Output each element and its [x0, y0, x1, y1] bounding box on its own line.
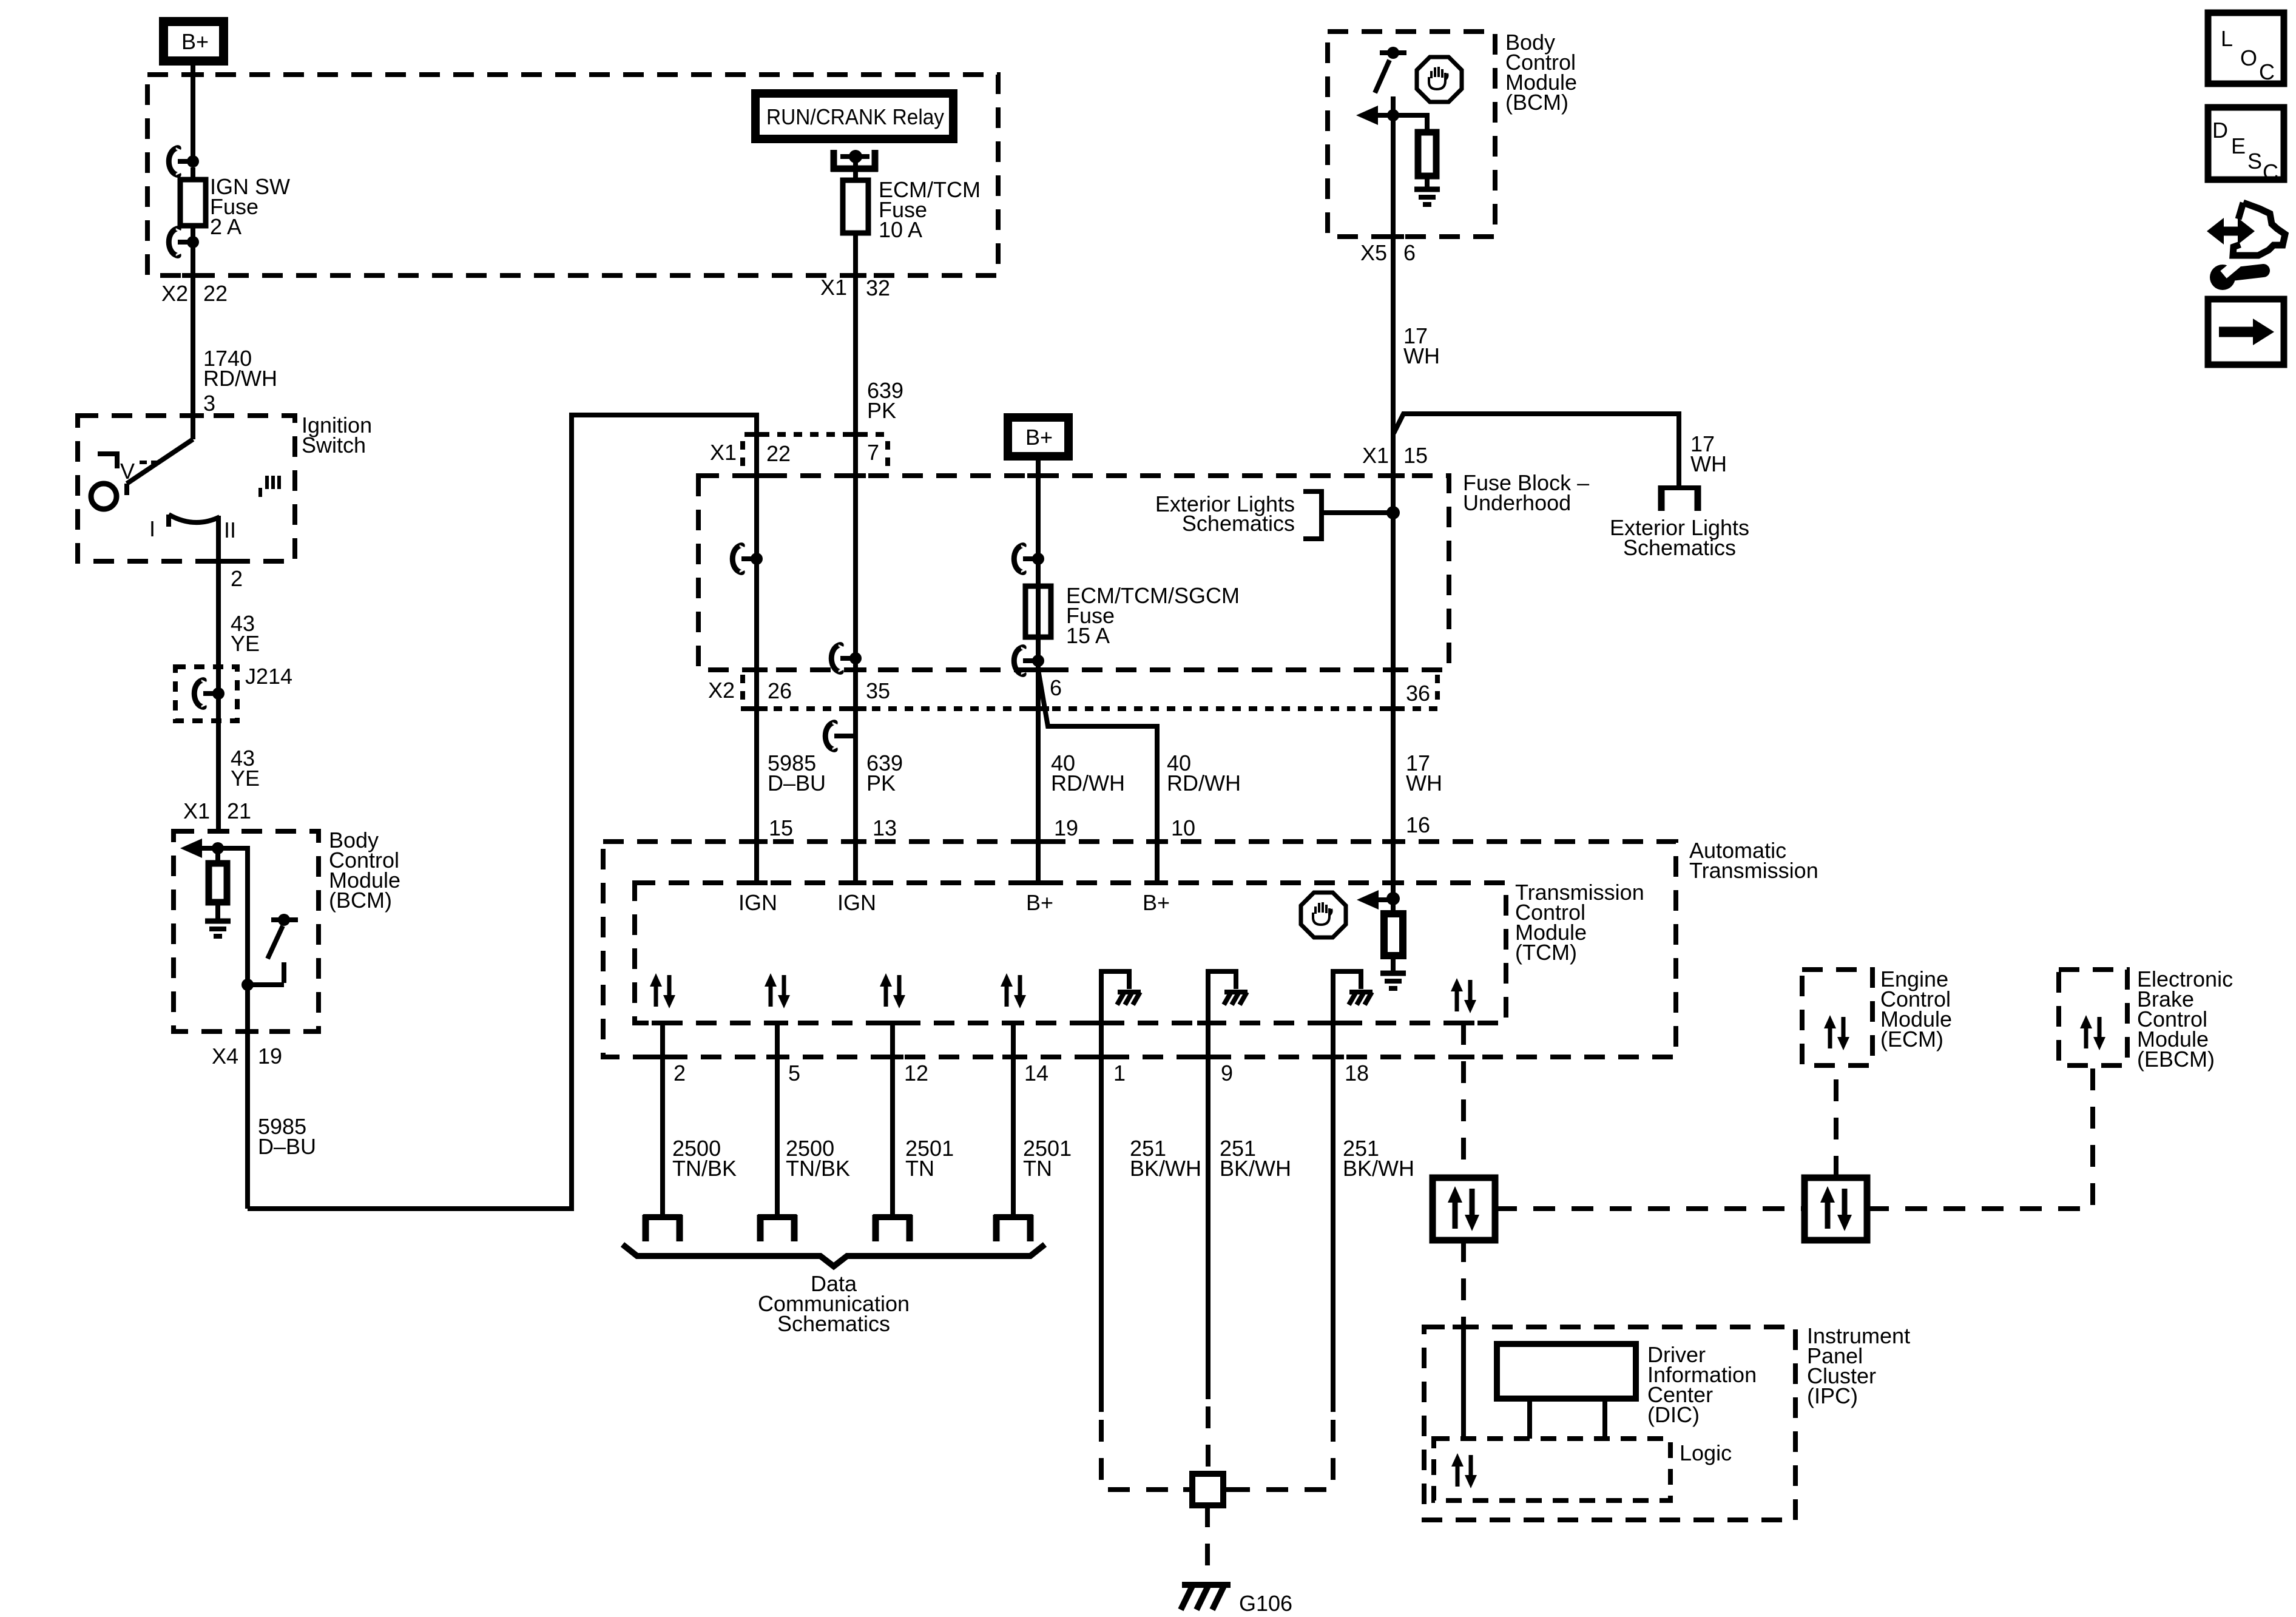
ticks at underhood box bottom and X2 row [746, 667, 768, 672]
next page arrow icon box [2208, 299, 2284, 365]
resistor inside TCM [1391, 899, 1396, 914]
fuse IGN SW 2A [180, 180, 206, 226]
wire inside IPC [1461, 1327, 1466, 1439]
connector hook below IGN SW fuse [169, 229, 178, 256]
serial data arrows inside logic box [1451, 1453, 1477, 1488]
RUN/CRANK Relay box [751, 89, 957, 143]
junction dot [187, 155, 199, 167]
branch wire pin 6 to pin 10 [1038, 670, 1157, 883]
ticks at transmission box top [746, 839, 768, 844]
svg-text:D: D [2212, 118, 2228, 143]
svg-text:G106: G106 [1239, 1591, 1292, 1616]
connector hook above IGN SW fuse [169, 148, 178, 175]
terminal pin 14 [994, 1215, 1033, 1241]
junction dot [1387, 109, 1399, 121]
ground G106 symbol [1181, 1585, 1231, 1610]
tick at B+ wire crossing fuse block top [182, 72, 204, 77]
serial data splice box (left) [1433, 1178, 1495, 1240]
svg-text:RD/WH: RD/WH [1167, 771, 1241, 795]
hook on wire 35 below X2 [825, 723, 835, 750]
svg-text:V: V [120, 459, 135, 484]
stop hand icon [1417, 57, 1462, 102]
svg-text:10 A: 10 A [879, 217, 922, 242]
hook below ECM/TCM/SGCM fuse [1014, 647, 1024, 675]
junction dot [751, 553, 763, 565]
svg-text:RD/WH: RD/WH [203, 366, 277, 391]
svg-text:X1: X1 [710, 440, 737, 465]
svg-text:C: C [2259, 59, 2275, 84]
junction dot [1386, 892, 1400, 905]
svg-text:X2: X2 [161, 281, 188, 306]
svg-text:(BCM): (BCM) [329, 888, 392, 913]
svg-text:O: O [2240, 46, 2257, 70]
dashed ground wire pin 1 [1101, 1420, 1189, 1490]
dashed ground wire pin 9 [1206, 1406, 1210, 1474]
junction dot [849, 150, 862, 163]
B+ power node (middle) [1004, 413, 1073, 461]
svg-text:16: 16 [1406, 812, 1430, 837]
svg-text:WH: WH [1403, 343, 1440, 368]
svg-text:PK: PK [867, 398, 896, 423]
svg-text:(BCM): (BCM) [1505, 90, 1568, 115]
Ignition Switch dashed box [78, 416, 295, 561]
hook above ECM/TCM/SGCM fuse [1014, 545, 1024, 573]
branch to exterior lights [1394, 414, 1679, 488]
fuse ECM/TCM 10A [843, 180, 868, 233]
svg-text:B+: B+ [1025, 425, 1053, 450]
ticks at transmission box bottom [652, 1055, 674, 1059]
svg-text:D–BU: D–BU [768, 771, 826, 795]
CAN wire pin 2 [660, 1021, 665, 1218]
svg-text:(IPC): (IPC) [1807, 1383, 1858, 1408]
dashed wire splice to IPC [1461, 1240, 1466, 1327]
svg-text:L: L [2221, 26, 2233, 51]
internal switch inside BCM [1387, 47, 1399, 59]
serial data arrows inside TCM [650, 973, 675, 1008]
svg-text:Transmission: Transmission [1689, 858, 1818, 883]
svg-text:Underhood: Underhood [1463, 490, 1571, 515]
svg-text:J214: J214 [245, 664, 292, 689]
position III mark [258, 488, 262, 497]
svg-text:10: 10 [1171, 815, 1195, 840]
wire 17 WH main run [1391, 237, 1396, 899]
junction dot [1032, 655, 1044, 667]
ticks at X1 connector row [746, 432, 768, 437]
junction dot J214 [212, 687, 225, 700]
svg-text:36: 36 [1406, 681, 1430, 706]
svg-text:35: 35 [866, 678, 890, 703]
ground wire pin 1 [1099, 1009, 1104, 1412]
Automatic Transmission dashed box [603, 842, 1676, 1057]
B+ power node (top left) [159, 17, 228, 66]
svg-text:B+: B+ [1026, 890, 1053, 915]
svg-text:19: 19 [258, 1044, 282, 1068]
svg-text:X1: X1 [820, 275, 847, 300]
svg-text:TN/BK: TN/BK [672, 1156, 737, 1181]
Body Control Module (BCM) dashed box bottom-left [174, 831, 319, 1031]
wire BCM output [245, 985, 250, 1209]
svg-text:II: II [224, 518, 236, 542]
Fuse Block - Underhood dashed box [698, 476, 1449, 670]
svg-text:IGN: IGN [837, 890, 876, 915]
Transmission Control Module (TCM) dashed box [635, 883, 1506, 1023]
svg-text:TN/BK: TN/BK [786, 1156, 850, 1181]
terminal pin 5 [758, 1215, 797, 1241]
ignition switch wiper arc [169, 515, 220, 522]
ground hook pin 18 [1333, 971, 1361, 1009]
svg-text:(TCM): (TCM) [1515, 940, 1577, 965]
ground inside BCM [205, 921, 231, 936]
dashed wire to ground [1205, 1505, 1210, 1578]
ground hook pin 1 [1101, 971, 1129, 1009]
svg-text:2 A: 2 A [210, 214, 241, 239]
Engine Control Module (ECM) dashed box [1802, 970, 1872, 1065]
svg-text:18: 18 [1345, 1061, 1369, 1085]
svg-text:32: 32 [866, 275, 890, 300]
svg-text:2: 2 [231, 566, 243, 591]
wire B+ to IGN SW fuse [191, 66, 195, 161]
svg-text:E: E [2231, 133, 2246, 158]
fuse ECM/TCM/SGCM 15A [1025, 586, 1051, 637]
Driver Information Center (DIC) display [1497, 1344, 1636, 1399]
hook on wire 7 above X2 [831, 645, 841, 672]
ground wire pin 18 [1331, 1009, 1335, 1412]
resistor branch inside BCM [1393, 115, 1427, 132]
svg-text:15 A: 15 A [1066, 623, 1110, 648]
svg-text:YE: YE [231, 631, 260, 656]
position O circle [91, 484, 116, 509]
dashed wire splice to ECM [1834, 1065, 1838, 1178]
svg-text:S: S [2247, 149, 2262, 174]
svg-text:IGN: IGN [738, 890, 777, 915]
ground hook pin 9 [1208, 971, 1236, 1009]
junction dot on 17 WH [1386, 506, 1400, 519]
svg-text:21: 21 [227, 798, 251, 823]
ground wire pin 9 [1206, 1009, 1210, 1399]
input arrow inside TCM [1357, 890, 1379, 910]
svg-text:C: C [2263, 160, 2278, 184]
svg-text:BK/WH: BK/WH [1130, 1156, 1201, 1181]
Instrument Panel Cluster (IPC) dashed box [1424, 1327, 1795, 1520]
stop hand icon TCM [1301, 893, 1346, 937]
svg-text:2: 2 [674, 1061, 686, 1085]
ticks at TCM top [746, 880, 768, 885]
svg-text:22: 22 [766, 441, 791, 466]
ground splice box G106 [1192, 1474, 1223, 1505]
svg-text:BK/WH: BK/WH [1343, 1156, 1414, 1181]
dashed wire to EBCM [1867, 1065, 2093, 1209]
svg-text:15: 15 [769, 815, 793, 840]
svg-text:1: 1 [1113, 1061, 1126, 1085]
svg-text:TN: TN [905, 1156, 934, 1181]
svg-text:BK/WH: BK/WH [1220, 1156, 1291, 1181]
connector X2 dotted row (fuse block underhood bottom) [741, 706, 1437, 711]
svg-text:TN: TN [1023, 1156, 1052, 1181]
svg-text:(DIC): (DIC) [1647, 1402, 1700, 1427]
svg-text:22: 22 [203, 281, 228, 306]
svg-text:B+: B+ [1143, 890, 1170, 915]
tick at BCM bottom [1382, 234, 1404, 239]
serial data arrows inside EBCM [2080, 1015, 2105, 1050]
wire ignition switch output [216, 516, 221, 667]
position IV mark [98, 454, 117, 468]
svg-text:Schematics: Schematics [777, 1311, 890, 1336]
svg-text:13: 13 [873, 815, 897, 840]
CAN wire pin 14 [1011, 1021, 1016, 1218]
svg-text:D–BU: D–BU [258, 1134, 316, 1159]
svg-text:26: 26 [768, 678, 792, 703]
wire run BCM to fuse block underhood [248, 415, 757, 1209]
ignition switch blade [191, 416, 195, 439]
Electronic Brake Control Module (EBCM) dashed box [2059, 970, 2127, 1065]
dashed serial wire TCM to splice box [1461, 1023, 1466, 1178]
vehicle service icon [2207, 203, 2285, 290]
Logic dashed box [1434, 1439, 1670, 1501]
svg-text:15: 15 [1403, 443, 1428, 468]
svg-text:B+: B+ [181, 29, 209, 54]
svg-text:7: 7 [867, 440, 879, 465]
terminal pin 12 [873, 1215, 912, 1241]
junction dot [212, 842, 224, 854]
svg-text:9: 9 [1221, 1061, 1233, 1085]
svg-text:Schematics: Schematics [1182, 511, 1295, 536]
wire to internal switch branch [218, 848, 248, 985]
relay output terminal cup [831, 150, 837, 172]
splice J214 dashed box [175, 667, 237, 721]
svg-text:WH: WH [1690, 451, 1727, 476]
svg-text:6: 6 [1050, 675, 1062, 700]
svg-text:5: 5 [788, 1061, 800, 1085]
svg-text:(ECM): (ECM) [1880, 1027, 1943, 1052]
junction dot [241, 979, 254, 991]
svg-text:I: I [149, 516, 155, 541]
svg-text:19: 19 [1054, 815, 1078, 840]
input arrow inside BCM [180, 839, 202, 858]
junction dot [1032, 553, 1044, 565]
Fuse Block - I/P dashed box [147, 75, 998, 275]
dashed ground wire pin 18 [1227, 1420, 1333, 1490]
resistor inside BCM [215, 848, 220, 863]
ground inside TCM [1380, 973, 1406, 988]
svg-text:X2: X2 [708, 678, 735, 703]
hook on wire 22 inside underhood box [732, 545, 742, 573]
dashed bus between splice boxes [1495, 1206, 1805, 1211]
svg-text:X5: X5 [1360, 240, 1387, 265]
svg-text:Switch: Switch [302, 433, 366, 457]
svg-text:X1: X1 [183, 798, 210, 823]
junction dot [849, 652, 862, 664]
svg-text:(EBCM): (EBCM) [2137, 1047, 2215, 1072]
serial data arrows inside ECM [1824, 1015, 1849, 1050]
svg-text:X1: X1 [1362, 443, 1389, 468]
junction dot [187, 236, 199, 248]
svg-text:14: 14 [1024, 1061, 1048, 1085]
svg-text:X4: X4 [212, 1044, 238, 1068]
ticks at TCM bottom [652, 1021, 674, 1025]
svg-text:3: 3 [203, 391, 215, 416]
svg-text:Schematics: Schematics [1623, 535, 1736, 560]
brace data communication [623, 1244, 1045, 1266]
terminal to exterior lights schematics [1658, 485, 1701, 490]
output arrow inside BCM [1356, 106, 1378, 125]
wire B+ to SGCM fuse [1036, 461, 1041, 883]
ticks at underhood box top [746, 473, 768, 478]
svg-text:RUN/CRANK Relay: RUN/CRANK Relay [766, 104, 944, 129]
internal switch inside BCM [278, 914, 290, 926]
CAN wire pin 12 [890, 1021, 895, 1218]
connector X1 dotted row (fuse block underhood top) [745, 432, 887, 437]
svg-text:WH: WH [1406, 771, 1442, 795]
DESC icon box [2208, 107, 2284, 184]
hook inside J214 [194, 680, 204, 707]
wire fuse to ignition switch [191, 242, 195, 416]
svg-text:PK: PK [866, 771, 896, 795]
svg-text:RD/WH: RD/WH [1051, 771, 1125, 795]
Body Control Module (BCM) dashed box top-right [1328, 32, 1495, 237]
terminal pin 2 [643, 1215, 682, 1241]
CAN wire pin 5 [775, 1021, 780, 1218]
LOC icon box [2208, 13, 2284, 84]
serial data splice box (right) [1805, 1178, 1867, 1240]
svg-text:Logic: Logic [1680, 1440, 1732, 1465]
ground inside BCM [1414, 189, 1440, 204]
svg-text:6: 6 [1403, 240, 1416, 265]
tick at fuse block bottom [182, 273, 204, 278]
svg-text:12: 12 [904, 1061, 928, 1085]
svg-text:YE: YE [231, 766, 260, 791]
